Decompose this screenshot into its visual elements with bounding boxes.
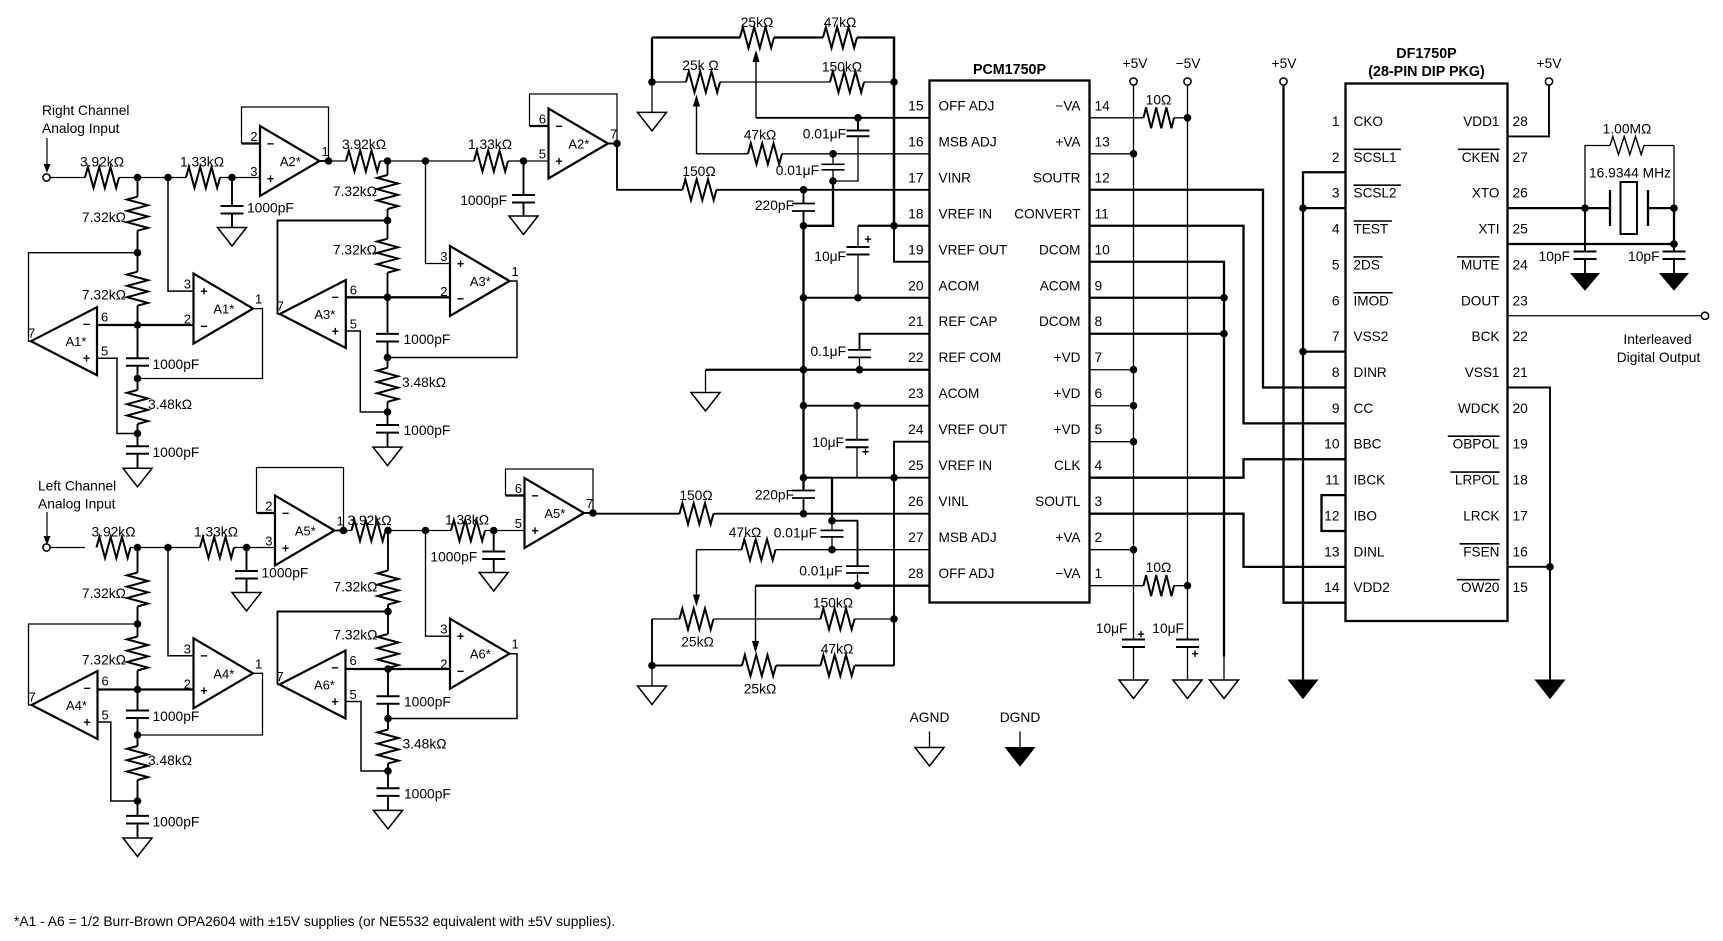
svg-text:10: 10 [1324, 437, 1340, 452]
svg-text:5: 5 [539, 147, 546, 162]
svg-text:−: − [457, 292, 464, 306]
svg-text:16: 16 [1513, 544, 1529, 559]
svg-text:IBO: IBO [1354, 508, 1377, 523]
svg-text:12: 12 [1324, 508, 1339, 523]
svg-text:23: 23 [1513, 293, 1529, 308]
svg-text:+VA: +VA [1055, 134, 1081, 149]
svg-text:22: 22 [1513, 329, 1528, 344]
svg-text:XTI: XTI [1478, 222, 1499, 237]
svg-text:1000pF: 1000pF [153, 709, 200, 724]
svg-text:10pF: 10pF [1539, 249, 1570, 264]
svg-text:VREF IN: VREF IN [939, 458, 993, 473]
svg-text:ACOM: ACOM [939, 278, 980, 293]
svg-text:10μF: 10μF [1152, 621, 1184, 636]
svg-text:22: 22 [908, 350, 923, 365]
svg-text:1.33kΩ: 1.33kΩ [180, 155, 224, 170]
svg-text:SCSL2: SCSL2 [1354, 186, 1397, 201]
svg-text:1: 1 [255, 292, 262, 307]
svg-text:VDD1: VDD1 [1463, 114, 1499, 129]
svg-text:VSS2: VSS2 [1354, 329, 1389, 344]
svg-text:25: 25 [1513, 222, 1529, 237]
svg-text:A3*: A3* [314, 307, 335, 322]
svg-text:1000pF: 1000pF [404, 694, 451, 709]
svg-text:7: 7 [586, 496, 593, 511]
svg-text:18: 18 [908, 206, 924, 221]
svg-text:12: 12 [1095, 170, 1110, 185]
svg-text:11: 11 [1095, 206, 1109, 221]
svg-text:2: 2 [250, 129, 257, 144]
svg-text:−: − [267, 137, 274, 151]
svg-text:1000pF: 1000pF [404, 332, 451, 347]
svg-text:3: 3 [1332, 186, 1340, 201]
svg-text:+: + [1191, 647, 1198, 661]
svg-text:24: 24 [1513, 257, 1529, 272]
svg-text:A2*: A2* [568, 137, 589, 152]
svg-text:DCOM: DCOM [1039, 242, 1081, 257]
svg-text:SOUTR: SOUTR [1033, 170, 1081, 185]
svg-text:−5V: −5V [1176, 56, 1202, 71]
svg-text:10μF: 10μF [1096, 621, 1128, 636]
svg-text:6: 6 [350, 283, 357, 298]
svg-text:26: 26 [908, 494, 924, 509]
svg-text:OFF ADJ: OFF ADJ [939, 98, 995, 113]
svg-text:19: 19 [908, 242, 924, 257]
svg-text:47kΩ: 47kΩ [729, 525, 762, 540]
svg-text:10μF: 10μF [814, 249, 846, 264]
svg-text:7.32kΩ: 7.32kΩ [333, 184, 377, 199]
svg-text:*A1 - A6 = 1/2 Burr-Brown OPA2: *A1 - A6 = 1/2 Burr-Brown OPA2604 with ±… [14, 914, 615, 929]
svg-text:0.1μF: 0.1μF [810, 344, 846, 359]
svg-text:1000pF: 1000pF [153, 445, 200, 460]
svg-text:+: + [83, 352, 90, 366]
svg-text:24: 24 [908, 422, 924, 437]
svg-text:−: − [83, 318, 90, 332]
svg-text:1: 1 [512, 264, 519, 279]
svg-text:3: 3 [250, 164, 257, 179]
svg-text:+: + [331, 695, 338, 709]
svg-text:−: − [555, 119, 562, 133]
svg-text:A2*: A2* [280, 154, 301, 169]
svg-text:220pF: 220pF [755, 198, 794, 213]
svg-text:+: + [1137, 628, 1144, 642]
svg-text:+VA: +VA [1055, 530, 1081, 545]
svg-text:Analog Input: Analog Input [38, 497, 116, 512]
svg-text:TEST: TEST [1354, 222, 1389, 237]
svg-text:4: 4 [1095, 458, 1103, 473]
svg-text:WDCK: WDCK [1458, 401, 1500, 416]
svg-text:6: 6 [1095, 386, 1103, 401]
svg-text:BBC: BBC [1354, 437, 1382, 452]
svg-text:1: 1 [512, 637, 519, 652]
svg-text:4: 4 [1332, 222, 1340, 237]
svg-text:A5*: A5* [295, 524, 316, 539]
svg-text:DINR: DINR [1354, 365, 1387, 380]
svg-text:CONVERT: CONVERT [1014, 206, 1080, 221]
svg-text:1.00MΩ: 1.00MΩ [1603, 122, 1652, 137]
svg-text:28: 28 [908, 566, 924, 581]
svg-text:16.9344 MHz: 16.9344 MHz [1589, 166, 1671, 181]
svg-text:1: 1 [337, 514, 344, 529]
svg-text:DGND: DGND [1000, 710, 1041, 725]
svg-text:17: 17 [1513, 508, 1528, 523]
svg-text:18: 18 [1513, 473, 1529, 488]
svg-text:7: 7 [1332, 329, 1340, 344]
svg-text:+: + [457, 630, 464, 644]
svg-text:−: − [531, 489, 538, 503]
svg-text:13: 13 [1095, 134, 1111, 149]
svg-text:CKEN: CKEN [1462, 150, 1500, 165]
svg-text:+: + [200, 684, 207, 698]
svg-text:A5*: A5* [544, 506, 565, 521]
svg-text:2: 2 [265, 499, 272, 514]
svg-text:3.92kΩ: 3.92kΩ [91, 525, 135, 540]
svg-text:+: + [531, 524, 538, 538]
svg-text:27: 27 [908, 530, 923, 545]
svg-text:10μF: 10μF [812, 435, 844, 450]
svg-text:−: − [282, 506, 289, 520]
svg-text:SOUTL: SOUTL [1035, 494, 1081, 509]
svg-text:47kΩ: 47kΩ [821, 642, 854, 657]
svg-text:11: 11 [1325, 473, 1339, 488]
svg-text:1000pF: 1000pF [247, 201, 294, 216]
svg-text:−: − [200, 319, 207, 333]
svg-text:A3*: A3* [470, 274, 491, 289]
svg-text:CKO: CKO [1354, 114, 1383, 129]
svg-text:20: 20 [1513, 401, 1529, 416]
svg-text:6: 6 [102, 674, 109, 689]
svg-text:6: 6 [350, 653, 357, 668]
svg-text:3.48kΩ: 3.48kΩ [402, 375, 446, 390]
svg-text:47kΩ: 47kΩ [744, 128, 777, 143]
svg-text:3: 3 [440, 249, 447, 264]
svg-text:150kΩ: 150kΩ [813, 596, 853, 611]
svg-text:−: − [331, 661, 338, 675]
svg-text:LRCK: LRCK [1463, 508, 1499, 523]
svg-text:3.48kΩ: 3.48kΩ [148, 753, 192, 768]
svg-text:14: 14 [1095, 98, 1111, 113]
svg-text:A1*: A1* [213, 302, 234, 317]
svg-text:1000pF: 1000pF [153, 357, 200, 372]
svg-text:9: 9 [1095, 278, 1103, 293]
svg-text:ACOM: ACOM [1040, 278, 1081, 293]
svg-text:7: 7 [610, 127, 617, 142]
svg-text:10Ω: 10Ω [1146, 560, 1172, 575]
svg-text:Interleaved: Interleaved [1623, 332, 1691, 347]
svg-text:1000pF: 1000pF [262, 566, 309, 581]
svg-text:27: 27 [1513, 150, 1528, 165]
svg-text:(28-PIN DIP PKG): (28-PIN DIP PKG) [1368, 64, 1485, 80]
svg-text:MSB ADJ: MSB ADJ [939, 530, 997, 545]
svg-text:5: 5 [515, 516, 522, 531]
svg-text:3: 3 [184, 277, 191, 292]
svg-text:3: 3 [265, 534, 272, 549]
svg-text:DF1750P: DF1750P [1396, 46, 1457, 62]
svg-text:VREF OUT: VREF OUT [939, 422, 1008, 437]
svg-text:10pF: 10pF [1628, 249, 1659, 264]
svg-text:+: + [200, 284, 207, 298]
svg-text:1: 1 [322, 144, 329, 159]
svg-text:3.92kΩ: 3.92kΩ [342, 137, 386, 152]
svg-text:1000pF: 1000pF [153, 815, 200, 830]
svg-text:Left Channel: Left Channel [38, 479, 116, 494]
svg-text:3: 3 [184, 641, 191, 656]
svg-text:15: 15 [1513, 580, 1529, 595]
svg-text:−VA: −VA [1055, 98, 1081, 113]
svg-text:LRPOL: LRPOL [1455, 473, 1500, 488]
svg-text:1000pF: 1000pF [430, 550, 477, 565]
svg-text:+: + [864, 233, 871, 247]
svg-text:25kΩ: 25kΩ [744, 682, 777, 697]
svg-text:ACOM: ACOM [939, 386, 980, 401]
svg-text:A4*: A4* [66, 698, 87, 713]
svg-text:20: 20 [908, 278, 924, 293]
svg-text:13: 13 [1324, 544, 1340, 559]
svg-text:A4*: A4* [213, 666, 234, 681]
svg-text:DOUT: DOUT [1461, 293, 1500, 308]
svg-text:150Ω: 150Ω [679, 488, 712, 503]
svg-text:26: 26 [1513, 186, 1529, 201]
svg-text:17: 17 [908, 170, 923, 185]
svg-text:2: 2 [1332, 150, 1340, 165]
svg-text:7.32kΩ: 7.32kΩ [333, 580, 377, 595]
svg-text:10Ω: 10Ω [1146, 93, 1172, 108]
svg-text:6: 6 [539, 112, 546, 127]
svg-text:7.32kΩ: 7.32kΩ [82, 586, 126, 601]
svg-text:5: 5 [1332, 257, 1340, 272]
svg-text:220pF: 220pF [755, 488, 794, 503]
svg-text:3: 3 [1095, 494, 1103, 509]
svg-text:+: + [555, 154, 562, 168]
svg-text:0.01μF: 0.01μF [799, 564, 842, 579]
svg-text:+VD: +VD [1054, 422, 1081, 437]
svg-text:VINL: VINL [939, 494, 970, 509]
svg-text:21: 21 [908, 314, 923, 329]
svg-text:+VD: +VD [1054, 350, 1081, 365]
svg-text:6: 6 [1332, 293, 1340, 308]
svg-text:7.32kΩ: 7.32kΩ [333, 628, 377, 643]
svg-text:CLK: CLK [1054, 458, 1080, 473]
svg-text:+: + [282, 541, 289, 555]
svg-text:1: 1 [255, 656, 262, 671]
svg-text:1.33kΩ: 1.33kΩ [468, 137, 512, 152]
svg-text:+: + [332, 324, 339, 338]
svg-text:5: 5 [350, 687, 357, 702]
svg-text:1000pF: 1000pF [460, 193, 507, 208]
svg-text:MUTE: MUTE [1461, 257, 1500, 272]
svg-text:OBPOL: OBPOL [1453, 437, 1500, 452]
svg-text:OW20: OW20 [1461, 580, 1500, 595]
svg-text:REF COM: REF COM [939, 350, 1002, 365]
svg-text:FSEN: FSEN [1463, 544, 1499, 559]
svg-text:BCK: BCK [1472, 329, 1500, 344]
svg-text:+: + [862, 445, 869, 459]
svg-text:A6*: A6* [470, 647, 491, 662]
svg-text:−: − [457, 665, 464, 679]
svg-text:IBCK: IBCK [1354, 473, 1386, 488]
svg-text:+: + [83, 715, 90, 729]
svg-text:5: 5 [101, 344, 108, 359]
svg-text:1000pF: 1000pF [404, 423, 451, 438]
svg-text:21: 21 [1513, 365, 1528, 380]
svg-text:IMOD: IMOD [1354, 293, 1390, 308]
svg-text:Analog Input: Analog Input [42, 121, 120, 136]
svg-text:−: − [332, 290, 339, 304]
svg-text:19: 19 [1513, 437, 1529, 452]
svg-text:SCSL1: SCSL1 [1354, 150, 1397, 165]
svg-text:3.92kΩ: 3.92kΩ [347, 513, 391, 528]
svg-text:5: 5 [102, 708, 109, 723]
svg-text:2DS: 2DS [1354, 257, 1380, 272]
svg-text:Digital Output: Digital Output [1617, 350, 1701, 365]
svg-text:0.01μF: 0.01μF [803, 127, 846, 142]
svg-text:7: 7 [29, 690, 36, 705]
svg-text:47kΩ: 47kΩ [824, 15, 857, 30]
svg-text:VREF OUT: VREF OUT [939, 242, 1008, 257]
svg-text:MSB ADJ: MSB ADJ [939, 134, 997, 149]
svg-text:5: 5 [350, 317, 357, 332]
svg-text:7.32kΩ: 7.32kΩ [82, 210, 126, 225]
svg-text:1.33kΩ: 1.33kΩ [445, 513, 489, 528]
svg-text:−VA: −VA [1055, 566, 1081, 581]
svg-text:AGND: AGND [910, 710, 950, 725]
svg-text:+5V: +5V [1537, 56, 1563, 71]
svg-text:OFF ADJ: OFF ADJ [939, 566, 995, 581]
svg-text:7.32kΩ: 7.32kΩ [82, 653, 126, 668]
svg-text:+: + [457, 257, 464, 271]
svg-text:28: 28 [1513, 114, 1529, 129]
svg-text:3.48kΩ: 3.48kΩ [148, 397, 192, 412]
svg-text:150Ω: 150Ω [682, 164, 715, 179]
svg-text:0.01μF: 0.01μF [776, 163, 819, 178]
svg-text:+: + [267, 172, 274, 186]
svg-text:5: 5 [1095, 422, 1103, 437]
svg-text:15: 15 [908, 98, 924, 113]
svg-text:9: 9 [1332, 401, 1340, 416]
svg-text:8: 8 [1095, 314, 1103, 329]
svg-text:10: 10 [1095, 242, 1111, 257]
svg-text:DCOM: DCOM [1039, 314, 1081, 329]
svg-text:14: 14 [1324, 580, 1340, 595]
svg-text:7.32kΩ: 7.32kΩ [333, 243, 377, 258]
svg-text:DINL: DINL [1354, 544, 1385, 559]
svg-text:23: 23 [908, 386, 924, 401]
svg-text:2: 2 [1095, 530, 1103, 545]
svg-text:A6*: A6* [314, 678, 335, 693]
svg-text:CC: CC [1354, 401, 1374, 416]
svg-text:+5V: +5V [1123, 56, 1149, 71]
svg-text:7: 7 [1095, 350, 1103, 365]
svg-text:−: − [83, 681, 90, 695]
svg-text:3.92kΩ: 3.92kΩ [80, 155, 124, 170]
svg-text:+5V: +5V [1272, 56, 1298, 71]
svg-text:3: 3 [440, 622, 447, 637]
svg-text:8: 8 [1332, 365, 1340, 380]
svg-text:XTO: XTO [1472, 186, 1500, 201]
svg-text:PCM1750P: PCM1750P [973, 62, 1047, 78]
svg-text:REF CAP: REF CAP [939, 314, 998, 329]
svg-text:150kΩ: 150kΩ [822, 60, 862, 75]
svg-text:VREF IN: VREF IN [939, 206, 993, 221]
svg-text:VDD2: VDD2 [1354, 580, 1390, 595]
svg-text:1: 1 [1095, 566, 1103, 581]
svg-text:6: 6 [101, 310, 108, 325]
svg-text:1: 1 [1332, 114, 1340, 129]
svg-text:3.48kΩ: 3.48kΩ [403, 737, 447, 752]
svg-text:1000pF: 1000pF [404, 786, 451, 801]
svg-text:16: 16 [908, 134, 924, 149]
svg-text:1.33kΩ: 1.33kΩ [194, 525, 238, 540]
svg-text:25kΩ: 25kΩ [681, 635, 714, 650]
svg-text:6: 6 [515, 481, 522, 496]
svg-text:−: − [200, 649, 207, 663]
svg-text:25: 25 [908, 458, 924, 473]
svg-text:VSS1: VSS1 [1465, 365, 1500, 380]
svg-text:VINR: VINR [939, 170, 972, 185]
svg-text:+VD: +VD [1054, 386, 1081, 401]
svg-text:A1*: A1* [66, 334, 87, 349]
svg-text:25kΩ: 25kΩ [741, 15, 774, 30]
svg-text:Right Channel: Right Channel [42, 103, 129, 118]
svg-text:0.01μF: 0.01μF [774, 526, 817, 541]
svg-text:7.32kΩ: 7.32kΩ [82, 288, 126, 303]
svg-text:25k Ω: 25k Ω [682, 58, 718, 73]
